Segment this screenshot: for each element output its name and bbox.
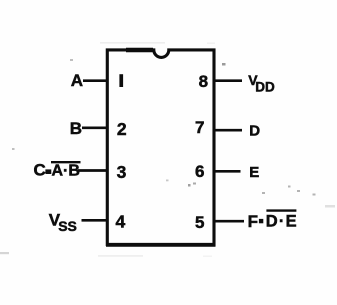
svg-text:4: 4: [116, 211, 126, 231]
pin 4 lead wire: [82, 219, 108, 222]
pin 7 lead wire: [214, 129, 242, 132]
pin 8 lead wire: [214, 79, 242, 82]
input D label: [249, 123, 260, 140]
pin 3 number: [117, 162, 127, 182]
pin 2 lead wire: [82, 126, 107, 129]
svg-text:2: 2: [117, 119, 127, 139]
input A label: [71, 71, 83, 90]
pin 6 lead wire: [214, 170, 241, 173]
power VSS label: [49, 210, 77, 234]
svg-text:SS: SS: [58, 218, 77, 234]
svg-text:E: E: [249, 164, 259, 181]
pin 1 number: [119, 74, 123, 87]
svg-text:5: 5: [195, 213, 204, 232]
svg-text:7: 7: [195, 118, 204, 137]
input B label: [70, 119, 82, 138]
svg-text:6: 6: [195, 162, 204, 181]
pin 4 number: [116, 211, 126, 231]
svg-text:F: F: [248, 212, 258, 231]
IC package U1 body (8-pin DIP outline with top notch): [106, 50, 216, 245]
pin 6 number: [195, 162, 204, 181]
svg-text:A·B: A·B: [52, 163, 80, 180]
svg-text:D·E: D·E: [266, 213, 298, 231]
svg-text:D: D: [249, 123, 260, 140]
svg-text:8: 8: [199, 72, 208, 91]
svg-text:3: 3: [117, 162, 127, 182]
svg-text:DD: DD: [255, 80, 275, 95]
pin 7 number: [195, 118, 204, 137]
pin 8 number: [199, 72, 208, 91]
svg-text:A: A: [71, 71, 83, 90]
pin 5 lead wire: [214, 220, 244, 223]
svg-text:B: B: [70, 119, 82, 138]
input E label: [249, 164, 259, 181]
output F = NOT(D AND E) label: [248, 211, 298, 231]
power VDD label: [248, 72, 275, 95]
pin 5 number: [195, 213, 204, 232]
pin 1 lead wire: [83, 79, 107, 82]
pin 3 lead wire: [78, 169, 107, 172]
svg-text:C: C: [34, 161, 46, 180]
pin 2 number: [117, 119, 127, 139]
output C = NOT(A AND B) label: [34, 161, 81, 180]
